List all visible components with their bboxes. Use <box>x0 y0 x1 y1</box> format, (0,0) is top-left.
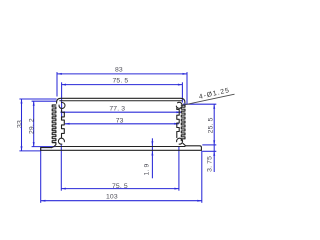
extension line bottom for dim 3.75 <box>202 150 216 152</box>
extension line left for dim 75.5 bottom <box>60 145 62 191</box>
bottom plate top line <box>56 146 185 148</box>
extension line mid for dim 25.5 / 3.75 <box>202 144 216 146</box>
svg-text:29. 2: 29. 2 <box>28 118 35 134</box>
extension line top for dim 29.2 <box>32 100 57 102</box>
extension line top for dim 33 <box>19 98 56 100</box>
bottom plate bottom line <box>41 149 202 151</box>
screw boss bottom-left <box>58 138 64 144</box>
extension line right for dim 75.5 bottom <box>178 146 180 191</box>
dimension line 83 <box>57 73 187 75</box>
extension line bottom for dim 29.2 <box>32 146 56 148</box>
profile top wall inner line <box>60 100 182 102</box>
screw boss bottom-right <box>177 138 183 144</box>
extension line right for dim 75.5 top <box>181 82 183 102</box>
dimension line 3.75 with tail <box>213 145 215 172</box>
right wall serrated outer edge <box>181 105 185 141</box>
leader line for 4-dia1.25 <box>185 94 235 105</box>
dimension line 77.3 <box>60 111 180 113</box>
extension line left for dim 103 <box>40 147 42 203</box>
screw boss top-left <box>59 103 65 109</box>
extension line left for dim 75.5 top <box>61 82 63 119</box>
svg-text:75. 5: 75. 5 <box>112 77 128 84</box>
right flange foot outline <box>183 143 201 150</box>
dimension line 103 <box>41 200 202 202</box>
extension line bottom for dim 33 <box>19 150 40 152</box>
dimension line 33 <box>21 99 23 151</box>
svg-text:3. 75: 3. 75 <box>207 156 214 172</box>
svg-text:75. 5: 75. 5 <box>112 183 128 190</box>
left wall inner edge with slots <box>62 110 65 138</box>
left wall serrated outer edge <box>52 105 56 148</box>
profile top wall outer line with corner radii <box>57 98 185 103</box>
dimension line 73 <box>65 123 179 125</box>
svg-text:83: 83 <box>115 67 123 74</box>
svg-text:103: 103 <box>106 194 118 201</box>
svg-text:77. 3: 77. 3 <box>109 105 125 112</box>
dimension line 1.9 <box>151 138 153 178</box>
extension line right for dim 83 <box>186 72 188 104</box>
extension line right for dim 103 <box>201 151 203 203</box>
dimension line 29.2 <box>33 101 35 146</box>
dimension line 25.5 <box>213 104 215 145</box>
svg-text:25. 5: 25. 5 <box>208 117 215 133</box>
left flange foot outline <box>41 148 52 151</box>
svg-text:1. 9: 1. 9 <box>144 163 151 175</box>
dimension line 75.5 top <box>62 84 183 86</box>
dimension line 75.5 bottom <box>61 188 179 190</box>
svg-text:73: 73 <box>116 117 124 124</box>
svg-text:33: 33 <box>17 120 24 128</box>
extension line left for dim 83 <box>56 72 58 96</box>
screw boss top-right <box>176 102 182 108</box>
right wall inner edge with slots <box>177 108 179 138</box>
extension line top for dim 25.5 <box>183 103 216 105</box>
